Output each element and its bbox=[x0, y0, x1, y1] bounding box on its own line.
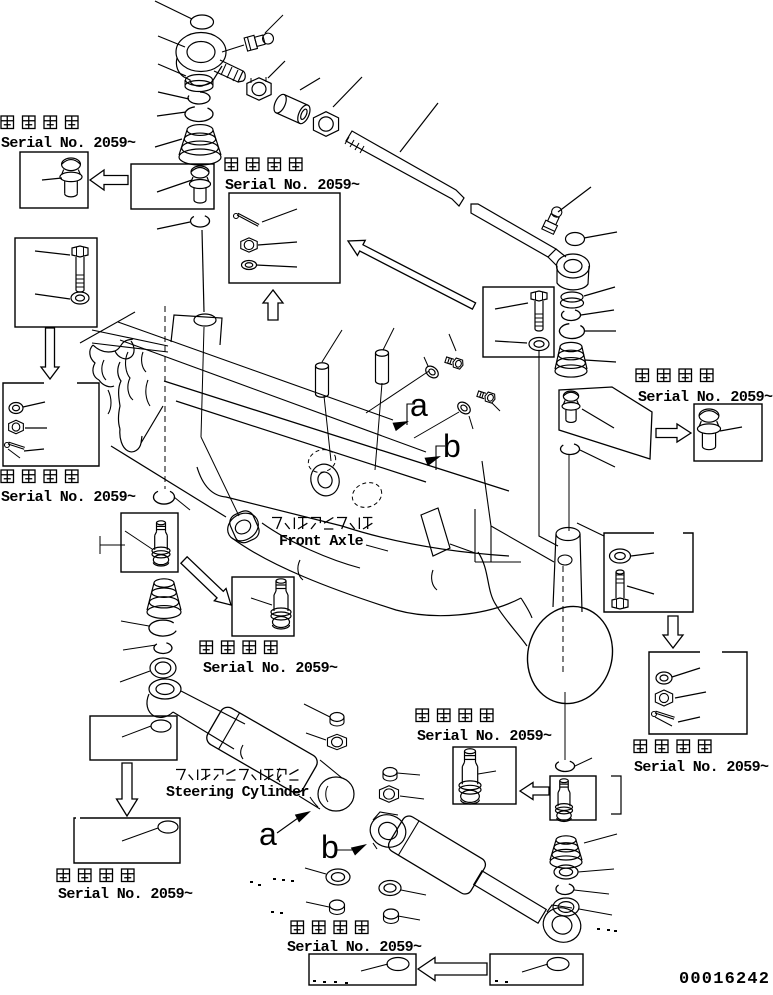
callout rail b bbox=[120, 340, 426, 452]
svg-text:Serial No. 2059~: Serial No. 2059~ bbox=[225, 177, 360, 194]
svg-text:Serial No. 2059~: Serial No. 2059~ bbox=[1, 489, 136, 506]
hex nut in B5 bbox=[9, 420, 24, 434]
snap ring 2 bbox=[562, 310, 581, 320]
detail box B5 bbox=[3, 383, 99, 466]
valve part in B8 bbox=[276, 579, 286, 583]
svg-text:00016242: 00016242 bbox=[679, 970, 770, 989]
plug ellipse bbox=[191, 15, 214, 29]
leader wire bbox=[584, 287, 615, 296]
axle lower outline bbox=[232, 538, 521, 616]
axle beam top edge bbox=[164, 381, 509, 491]
bolt b1 bbox=[444, 355, 464, 370]
callout arrow a bbox=[393, 421, 410, 431]
grease fitting 1 bbox=[244, 31, 275, 51]
kana steering cylinder bbox=[176, 770, 298, 781]
detail box B8 bbox=[232, 577, 294, 636]
ellipse in B16 bbox=[387, 958, 409, 971]
bolt b2 bbox=[476, 389, 496, 404]
arrow A3 down bbox=[41, 328, 59, 379]
ball stud on plate bbox=[563, 391, 578, 401]
pointer wire from B7 down bbox=[539, 351, 558, 546]
axle beam lower-left edge bbox=[111, 446, 226, 517]
axle top arm wave bbox=[93, 339, 133, 352]
svg-text:Serial No. 2059~: Serial No. 2059~ bbox=[1, 135, 136, 152]
knuckle ball bbox=[517, 597, 624, 713]
leader wire bbox=[585, 360, 616, 362]
leader wire bbox=[121, 621, 149, 626]
leader wire bbox=[123, 645, 156, 650]
svg-text:b: b bbox=[443, 428, 461, 464]
axle cutout lower-left bbox=[227, 508, 262, 546]
ellipse in B9 bbox=[151, 720, 171, 732]
arrow A9 left bbox=[418, 958, 487, 981]
axle beam bottom edge bbox=[197, 467, 509, 556]
leader wire bbox=[581, 310, 614, 315]
ball stud in B12 bbox=[560, 779, 569, 783]
leader wire bbox=[174, 497, 190, 510]
detail box B13 bbox=[694, 404, 762, 461]
plug ellipse 2 bbox=[566, 233, 585, 246]
washer in B7 bbox=[529, 338, 549, 351]
front axle label kana bbox=[272, 518, 372, 530]
cylinder 1 ports bbox=[241, 745, 243, 759]
axle boss ellipse bbox=[194, 314, 216, 326]
axle right foot bbox=[478, 552, 527, 646]
washer in B14 bbox=[610, 549, 631, 563]
kingpin centerline bbox=[562, 566, 564, 672]
collar 4 bbox=[553, 898, 579, 916]
cup washer bbox=[154, 491, 175, 504]
leader wire to fitting bbox=[265, 15, 283, 33]
dust boot 1 bbox=[187, 125, 213, 136]
leader wire bbox=[333, 77, 362, 107]
tie rod end 2 housing bbox=[557, 254, 590, 278]
washer stack bbox=[186, 75, 213, 86]
leader wire bbox=[584, 232, 617, 238]
steering arm eye bbox=[149, 679, 181, 699]
serial note text 3 bbox=[636, 369, 649, 382]
kingpin post bbox=[556, 528, 580, 541]
svg-text:Serial No. 2059~: Serial No. 2059~ bbox=[634, 759, 769, 776]
svg-text:b: b bbox=[321, 829, 339, 865]
collar 3 bbox=[150, 658, 176, 678]
callout arrow b bbox=[425, 456, 442, 466]
ball stud in B2 bbox=[191, 166, 209, 178]
serial note text 7 bbox=[634, 740, 647, 753]
axle left leg bbox=[118, 362, 121, 429]
axle wedge lines bbox=[92, 330, 168, 346]
arrow A8 down bbox=[663, 616, 683, 648]
axle kingpin boss upper bbox=[307, 460, 344, 499]
callout bracket a bbox=[407, 404, 415, 425]
long arrow to B3 bbox=[348, 240, 476, 309]
box B9 bbox=[90, 716, 177, 760]
ellipse in B17 bbox=[547, 958, 569, 971]
svg-text:Serial No. 2059~: Serial No. 2059~ bbox=[417, 728, 552, 745]
grease fitting 2 bbox=[542, 205, 565, 235]
axle kingpin boss dashed bbox=[305, 446, 339, 476]
knuckle ball lower wire bbox=[564, 692, 566, 760]
bolt in B14 bbox=[616, 570, 624, 574]
snap ring bbox=[188, 92, 210, 104]
upper collar ring bbox=[223, 508, 264, 547]
tie rod tube 1 bbox=[346, 131, 464, 206]
detail box B7 bbox=[483, 287, 554, 357]
axle right steps bbox=[474, 509, 476, 562]
washer in B3 bbox=[242, 261, 257, 270]
snap ring below plate bbox=[561, 444, 580, 454]
svg-text:Steering Cylinder: Steering Cylinder bbox=[166, 784, 309, 801]
serial note text 6 bbox=[416, 709, 429, 722]
detail box B8b bbox=[121, 513, 178, 572]
leader wire to housing bbox=[158, 36, 185, 47]
cylinder 1 barrel bbox=[204, 704, 320, 795]
svg-text:Serial No. 2059~: Serial No. 2059~ bbox=[58, 886, 193, 903]
callout bracket b bbox=[436, 446, 445, 470]
nut part L1 bbox=[379, 786, 398, 803]
serial note text 5 bbox=[200, 641, 213, 654]
arrow A1 left bbox=[90, 170, 128, 190]
leader wire bbox=[155, 139, 182, 147]
svg-text:Serial No. 2059~: Serial No. 2059~ bbox=[203, 660, 338, 677]
washer stack 2 bbox=[561, 292, 583, 302]
detail box B14 bbox=[604, 533, 693, 612]
ring part bl2 bbox=[379, 881, 401, 896]
label squiggle bbox=[310, 797, 318, 807]
cotter pin in B15 bbox=[655, 713, 674, 719]
leader wire down to boss bbox=[202, 230, 204, 312]
spacer sleeve bbox=[271, 93, 312, 126]
arrow A7 right bbox=[656, 424, 691, 442]
leader wire bbox=[157, 112, 186, 116]
serial note text 2 bbox=[225, 158, 238, 171]
detail box B1 bbox=[20, 152, 88, 208]
dust boot 3 bbox=[154, 579, 174, 587]
detail box B2 bbox=[131, 164, 214, 209]
cylinder 2 barrel bbox=[386, 813, 488, 896]
ring 4 bbox=[554, 865, 578, 879]
leader wire bbox=[120, 671, 150, 682]
ball stud in B8b bbox=[157, 521, 166, 525]
leader wire bbox=[158, 92, 189, 99]
arrow A5 down bbox=[117, 763, 138, 816]
detail box B11 bbox=[453, 747, 516, 804]
arrow A4 diag bbox=[181, 557, 231, 605]
detail box B12 bbox=[550, 776, 596, 820]
serial note text 9 bbox=[291, 921, 304, 934]
dot marks bbox=[313, 980, 316, 982]
c-ring 2 bbox=[559, 324, 584, 339]
leader wire bbox=[568, 455, 570, 531]
serial note text 8 bbox=[57, 869, 70, 882]
serial note text 1 bbox=[1, 116, 14, 129]
castle nut in B3 bbox=[241, 238, 257, 252]
cylinder 2 rod bbox=[474, 871, 547, 923]
svg-text:Front Axle: Front Axle bbox=[279, 533, 364, 550]
leader wire bbox=[585, 330, 616, 332]
snap ring 3 bbox=[149, 620, 176, 636]
leader wire bbox=[158, 64, 186, 76]
valve part in B11 bbox=[465, 749, 476, 754]
dust boot 2 bbox=[560, 342, 582, 351]
svg-text:a: a bbox=[410, 387, 428, 423]
steering arm bbox=[147, 694, 173, 717]
washer w1 bbox=[423, 364, 440, 381]
snap ring 4 bbox=[556, 884, 574, 894]
detail box B3 bbox=[229, 193, 340, 283]
clevis pin 2 bbox=[376, 350, 389, 357]
detail box B15 bbox=[649, 652, 747, 734]
detail box B16 bbox=[309, 954, 416, 985]
leader wire bbox=[300, 78, 320, 90]
arrow A2 up bbox=[263, 290, 283, 320]
dashed centerline left bbox=[164, 306, 166, 489]
arrow A6 left bbox=[520, 783, 549, 800]
ball stud in B1 bbox=[62, 158, 81, 171]
clevis pin 1 bbox=[316, 363, 329, 370]
small ring 3 bbox=[154, 643, 172, 654]
callout arrow b2 bbox=[351, 844, 367, 856]
callout rail a bbox=[118, 322, 393, 420]
snap ring r5 bbox=[556, 761, 575, 771]
tie rod end 1 housing bbox=[176, 33, 226, 72]
leader wire label bbox=[366, 545, 388, 551]
cotter pin in B5 bbox=[8, 444, 24, 449]
leader wire bbox=[268, 61, 285, 78]
ball stud in B13 bbox=[699, 409, 719, 422]
washer in B4 bbox=[71, 292, 89, 304]
cylinder 1 rod end bbox=[318, 777, 354, 811]
bracket right of B12 bbox=[611, 776, 621, 814]
axle beam inner edge bbox=[176, 401, 426, 482]
cap part bl1 bbox=[330, 900, 345, 910]
cap part L1 bbox=[383, 768, 397, 777]
ellipse in B10 bbox=[158, 821, 178, 833]
dust boot 4 bbox=[556, 836, 576, 844]
leader wire bbox=[558, 187, 591, 212]
cylinder 2 rod end 2 bbox=[538, 903, 585, 948]
hex nut 2 bbox=[313, 112, 338, 137]
ring part bl1 bbox=[326, 869, 350, 885]
tie rod tube 2 bbox=[471, 204, 556, 257]
bolt in B4 bbox=[72, 246, 88, 257]
cotter pin in B3 bbox=[237, 215, 258, 226]
cap part bl2 bbox=[384, 909, 399, 919]
cylinder 2 rod end eye bbox=[366, 810, 411, 852]
axle boss block bbox=[171, 315, 222, 345]
cap part bbox=[330, 713, 344, 722]
washer in B5 bbox=[9, 403, 23, 414]
pointer wire into B14 bbox=[577, 523, 604, 536]
leader wire to tube bbox=[400, 103, 438, 152]
washer w2 bbox=[455, 400, 472, 417]
washer in B15 bbox=[656, 672, 672, 684]
hex nut in B15 bbox=[655, 690, 672, 706]
svg-text:a: a bbox=[259, 816, 277, 852]
snap ring below B2 bbox=[191, 216, 210, 227]
box B10 bbox=[74, 818, 180, 863]
serial note text 4 bbox=[1, 470, 14, 483]
detail box B4 bbox=[15, 238, 97, 327]
c-ring bbox=[185, 107, 213, 122]
castle nut 1 bbox=[247, 78, 271, 100]
hex nut part bbox=[327, 734, 346, 749]
callout arrow a2 bbox=[295, 811, 311, 823]
detail box B17 bbox=[490, 954, 583, 985]
leader wire to plug bbox=[155, 1, 192, 19]
bolt in B7 bbox=[531, 291, 547, 301]
mount plate bbox=[559, 387, 652, 459]
axle bracket plate bbox=[421, 508, 450, 556]
